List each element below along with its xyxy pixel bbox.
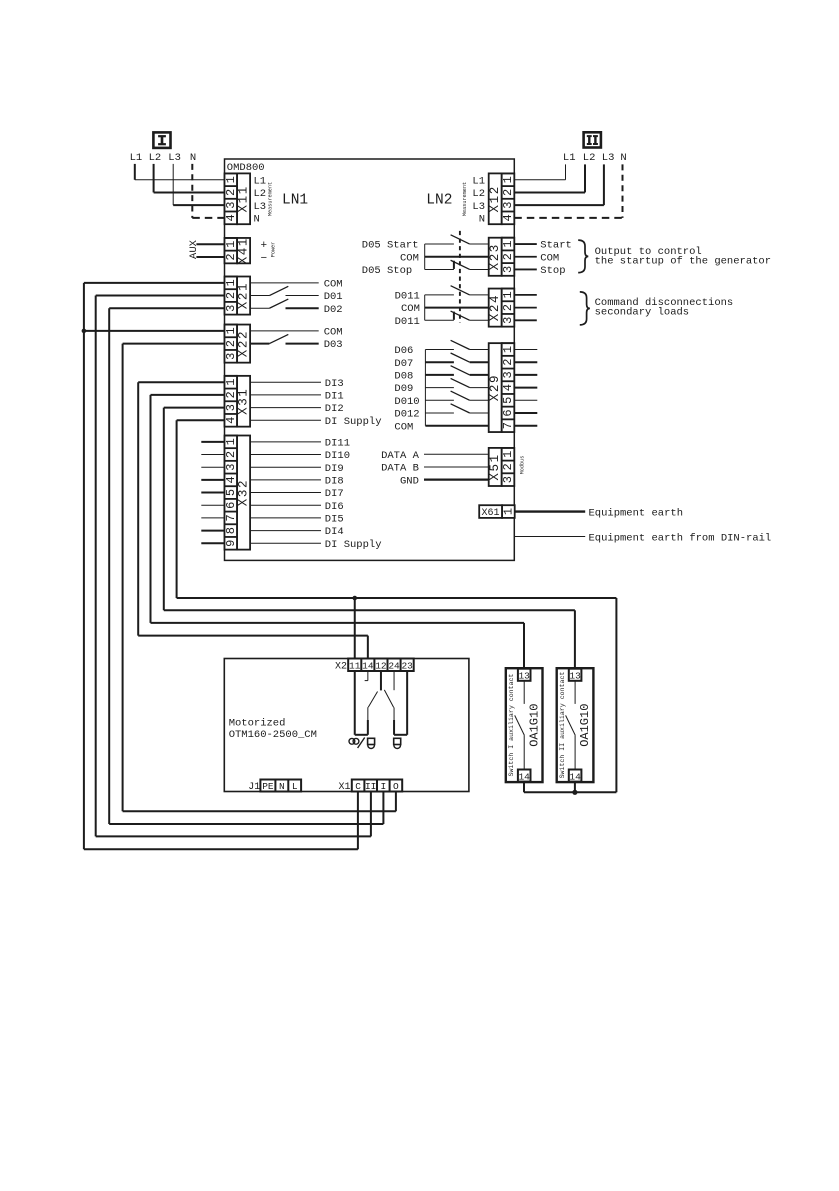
svg-text:1: 1 (501, 176, 515, 183)
wire X31.1 DI3 (250, 381, 321, 383)
wire X23.2 out (514, 256, 537, 258)
auxiliary switch box OA1G10 II (557, 668, 594, 782)
wire switch I 14 stub (523, 782, 525, 793)
svg-text:D06: D06 (394, 345, 413, 357)
svg-text:COM: COM (401, 303, 420, 315)
label OTM160-2500_CM (229, 729, 317, 741)
contact D05 Start X23.1 (425, 235, 489, 244)
label DI2 (325, 403, 344, 415)
svg-text:L1: L1 (472, 175, 485, 187)
label J1 (248, 782, 260, 793)
wire net DI3: X31.1 left + vertical + run to X2.14 (138, 382, 368, 658)
label L2 left (149, 152, 162, 164)
label Motorized (229, 717, 286, 729)
svg-text:3: 3 (224, 464, 238, 471)
wire DI Supply right vertical down (615, 598, 617, 792)
svg-text:3: 3 (501, 202, 515, 209)
svg-text:DI7: DI7 (325, 488, 344, 500)
svg-text:1: 1 (501, 508, 515, 515)
svg-text:AUX: AUX (188, 239, 200, 259)
wire X32.5 left stub (201, 492, 224, 494)
svg-text:4: 4 (224, 417, 238, 424)
label LN2 (426, 193, 452, 209)
svg-text:X21: X21 (237, 282, 251, 309)
svg-text:13: 13 (569, 671, 581, 682)
wire X32.8 right (250, 530, 321, 532)
label X2 (335, 662, 347, 673)
junction dot DI Supply / X2.11 (352, 596, 357, 601)
svg-text:Switch II auxiliary contact: Switch II auxiliary contact (559, 672, 566, 779)
svg-text:14: 14 (569, 771, 581, 782)
label + plus (261, 240, 268, 252)
wire equipment earth (514, 510, 585, 512)
svg-text:D01: D01 (324, 291, 343, 303)
label D011 lower (395, 316, 420, 328)
svg-text:24: 24 (388, 661, 400, 672)
contact D05 Stop X23.3 (NC) (425, 260, 489, 269)
wire X32.2 right (250, 454, 321, 456)
svg-text:D09: D09 (394, 383, 413, 395)
svg-text:1: 1 (224, 438, 238, 445)
svg-text:3: 3 (501, 317, 515, 324)
svg-text:DI11: DI11 (325, 437, 350, 449)
svg-text:D011: D011 (395, 291, 420, 303)
svg-text:Equipment earth: Equipment earth (589, 508, 684, 520)
wire X21.1 COM out (250, 282, 319, 284)
label AUX (188, 239, 200, 259)
svg-text:secondary loads: secondary loads (595, 307, 690, 319)
svg-text:X31: X31 (237, 388, 251, 415)
contact D01 X21.2 (250, 286, 319, 295)
svg-text:DI9: DI9 (325, 463, 344, 475)
svg-text:L2: L2 (254, 188, 267, 200)
svg-text:L1: L1 (130, 152, 143, 164)
wire X32.2 left stub (201, 454, 224, 456)
terminal block X23 (488, 238, 515, 276)
svg-text:L1: L1 (254, 175, 267, 187)
label Measurement right (462, 182, 468, 216)
wire L3 to X12.3 (514, 164, 604, 205)
wire net DI1: X31.2 left + vertical + run to switch I 13 (151, 395, 525, 668)
label Measurement left (268, 182, 274, 216)
contact D06 X29.1 (425, 340, 488, 349)
wire X32.6 left stub (201, 504, 224, 506)
label OMD800 (227, 162, 265, 174)
wire X29.5 out (514, 399, 537, 401)
junction dot net C (82, 329, 87, 334)
wire X32.4 left stub (201, 479, 224, 481)
label DI4 (325, 526, 344, 538)
svg-text:DI6: DI6 (325, 501, 344, 513)
svg-text:X22: X22 (237, 330, 251, 357)
svg-text:DATA A: DATA A (381, 450, 420, 462)
label DI9 (325, 463, 344, 475)
auxiliary switch box OA1G10 I (506, 668, 543, 782)
wire X24.3 out (514, 319, 537, 321)
svg-text:X1: X1 (338, 782, 350, 793)
label DO2 (324, 304, 343, 316)
svg-text:L1: L1 (563, 152, 576, 164)
label DI5 (325, 514, 344, 526)
svg-text:O: O (393, 781, 399, 792)
svg-text:D010: D010 (394, 396, 419, 408)
wire COM X24.2 (425, 307, 489, 309)
wire X2.14 fixed contact stub (365, 671, 368, 681)
label COM X22.1 (324, 327, 343, 339)
wire net D03: X22.2 left + vertical + bottom to X1.O (123, 344, 396, 812)
svg-text:DI3: DI3 (325, 378, 344, 390)
label DO1 (324, 291, 343, 303)
label DI11 (325, 437, 350, 449)
label D05 Start (362, 240, 419, 252)
svg-text:3: 3 (501, 371, 515, 378)
wire DATA B (424, 466, 489, 468)
svg-text:D08: D08 (394, 371, 413, 383)
wire net C: X21.1 left to vertical (84, 282, 225, 284)
device OMD800 outline (225, 159, 515, 560)
wire X32.4 right (250, 479, 321, 481)
wire L2 to X12.2 (514, 164, 585, 192)
wire DATA A (424, 453, 489, 455)
svg-text:Switch I auxiliary contact: Switch I auxiliary contact (508, 674, 515, 777)
svg-text:the startup of the generator: the startup of the generator (595, 255, 771, 267)
svg-text:3: 3 (501, 476, 515, 483)
svg-text:23: 23 (401, 661, 413, 672)
svg-text:L2: L2 (472, 188, 485, 200)
svg-text:7: 7 (501, 422, 515, 429)
svg-text:L3: L3 (254, 201, 267, 213)
svg-text:11: 11 (349, 661, 361, 672)
label DI7 (325, 488, 344, 500)
label COM X23 (400, 252, 419, 264)
terminal block X29 (488, 343, 515, 432)
contact D011 X24.1 (425, 286, 489, 295)
source marker II (584, 132, 601, 147)
svg-text:1: 1 (501, 451, 515, 458)
svg-text:Power: Power (271, 242, 277, 258)
wire left throw down (367, 707, 369, 735)
svg-text:1: 1 (501, 291, 515, 298)
svg-text:II: II (365, 781, 376, 792)
terminal cells J1 PE N L (260, 780, 301, 793)
label D08 (394, 371, 413, 383)
wire motor loop right bottom (394, 734, 407, 736)
svg-text:D011: D011 (395, 316, 420, 328)
wire X31.3 DI2 (250, 407, 321, 409)
svg-text:4: 4 (224, 214, 238, 221)
terminal block X21 (224, 277, 251, 315)
wire N dashed to X12.4 (514, 164, 622, 217)
wire X32.1 left stub (201, 441, 224, 443)
svg-text:DI5: DI5 (325, 514, 344, 526)
wire COM X23.2 (425, 256, 489, 258)
svg-text:D05 Stop: D05 Stop (362, 265, 412, 277)
svg-text:J1: J1 (248, 782, 260, 793)
label DATA B (381, 463, 419, 475)
svg-text:14: 14 (362, 661, 374, 672)
label DATA A (381, 450, 420, 462)
svg-text:13: 13 (518, 671, 530, 682)
motorized OTM160-2500_CM box (224, 659, 469, 792)
wire DI Supply drop to X2.11 (354, 598, 356, 659)
wire X32.7 right (250, 517, 321, 519)
wire X31.2 DI1 (250, 394, 321, 396)
svg-text:D012: D012 (394, 409, 419, 421)
svg-text:COM: COM (324, 327, 343, 339)
svg-text:1: 1 (224, 176, 238, 183)
label X1 (338, 782, 350, 793)
svg-text:OA1G10: OA1G10 (527, 704, 541, 747)
svg-text:L3: L3 (472, 201, 485, 213)
wire L1 to X11.1 (135, 164, 225, 180)
svg-text:X29: X29 (488, 374, 502, 401)
label Start (540, 240, 572, 252)
wire X29.2 out (514, 361, 537, 363)
wire N dashed to X11.4 (192, 164, 224, 218)
svg-text:Stop: Stop (540, 265, 565, 277)
wire X23.3 out (514, 268, 537, 270)
label LN1 (282, 193, 308, 209)
contact D09 X29.4 (425, 378, 488, 387)
svg-text:8: 8 (224, 527, 238, 534)
wire X23.1 out (514, 243, 537, 245)
svg-text:OTM160-2500_CM: OTM160-2500_CM (229, 729, 317, 741)
label L1 left (130, 152, 143, 164)
svg-text:OMD800: OMD800 (227, 162, 265, 174)
contact D08 X29.3 (425, 366, 488, 375)
terminal block X61 (479, 505, 515, 519)
indicator lamp icon I (368, 738, 375, 748)
svg-text:L2: L2 (149, 152, 162, 164)
label DI6 (325, 501, 344, 513)
motor cam icon (349, 738, 365, 749)
wire X22.1 to net C (84, 330, 225, 332)
terminal block X41 (224, 237, 251, 264)
svg-text:2: 2 (501, 253, 515, 260)
label COM X29 (394, 421, 413, 433)
svg-text:N: N (620, 152, 626, 164)
wire switch II 14 stub (574, 782, 576, 793)
contact D011 X24.3 (NC) (425, 311, 489, 320)
wire AUX + stub (196, 243, 224, 245)
label - minus (261, 253, 268, 265)
terminal block X51 (488, 448, 515, 486)
changeover blade left (368, 692, 377, 708)
terminal block X22 (224, 325, 251, 363)
label Output to control (595, 246, 702, 258)
label Command disconnections (595, 297, 734, 309)
label DI8 (325, 475, 344, 487)
wire L1 to X12.1 (514, 164, 565, 179)
svg-text:N: N (190, 152, 196, 164)
svg-text:L: L (292, 781, 298, 792)
label L1 right (563, 152, 576, 164)
svg-text:LN2: LN2 (426, 193, 452, 209)
contact D010 X29.5 (425, 391, 488, 400)
svg-text:COM: COM (394, 421, 413, 433)
wire net DI2: X31.3 left + vertical + run to switch II 13 (164, 408, 575, 669)
svg-text:GND: GND (400, 475, 419, 487)
svg-text:12: 12 (375, 661, 387, 672)
svg-text:Measurement: Measurement (268, 182, 274, 216)
svg-text:C: C (355, 781, 361, 792)
label L2 right (583, 152, 596, 164)
label D011 upper (395, 291, 420, 303)
contact D07 X29.2 (425, 353, 488, 362)
svg-text:Motorized: Motorized (229, 717, 286, 729)
svg-text:DI10: DI10 (325, 450, 350, 462)
wire motor loop left bottom (355, 734, 368, 736)
svg-text:1: 1 (224, 379, 238, 386)
label D012 (394, 409, 419, 421)
wire X32.3 left stub (201, 466, 224, 468)
terminal block X11 (224, 173, 251, 224)
wire X32.1 right (250, 441, 321, 443)
wire X2.24 fixed contact stub (393, 671, 395, 690)
X11 pin labels L1 L2 L3 N (254, 175, 267, 225)
wire X2.23 down (406, 671, 408, 735)
wire X24.1 out (514, 294, 537, 296)
svg-text:14: 14 (518, 771, 530, 782)
label N left (190, 152, 196, 164)
label Power (271, 242, 277, 258)
svg-text:D03: D03 (324, 339, 343, 351)
svg-text:1: 1 (501, 346, 515, 353)
svg-text:4: 4 (501, 384, 515, 391)
wire X32.7 left stub (201, 517, 224, 519)
wire X32.6 right (250, 504, 321, 506)
svg-text:X61: X61 (481, 508, 499, 519)
wire X32.9 right (250, 542, 321, 544)
label L3 left (168, 152, 181, 164)
label N right (620, 152, 626, 164)
svg-text:2: 2 (501, 304, 515, 311)
X23 left bus (424, 244, 426, 269)
svg-text:Modbus: Modbus (520, 456, 526, 475)
svg-text:X32: X32 (237, 479, 251, 506)
label DI3 (325, 378, 344, 390)
contact D02 X21.3 (250, 299, 319, 308)
label D010 (394, 396, 419, 408)
svg-text:2: 2 (501, 463, 515, 470)
svg-text:5: 5 (501, 397, 515, 404)
label Equipment earth from DIN-rail (589, 533, 772, 545)
wire equipment earth from DIN-rail (514, 536, 585, 538)
label Modbus (520, 456, 526, 475)
wire X29.1 out (514, 349, 537, 351)
wire net D02: X21.3 left + vertical + bottom to X1.I (109, 308, 383, 824)
svg-text:DI2: DI2 (325, 403, 344, 415)
svg-text:2: 2 (501, 189, 515, 196)
svg-text:DATA B: DATA B (381, 463, 419, 475)
wire GND (424, 479, 489, 481)
label the startup of the generator (595, 255, 771, 267)
svg-text:4: 4 (501, 214, 515, 221)
wire aux contacts 14 bus (524, 791, 616, 793)
svg-text:X51: X51 (488, 453, 502, 480)
changeover blade right (384, 690, 393, 708)
svg-text:7: 7 (224, 514, 238, 521)
svg-text:D02: D02 (324, 304, 343, 316)
label COM X21.1 (324, 278, 343, 290)
svg-text:X41: X41 (237, 237, 251, 264)
svg-text:OA1G10: OA1G10 (578, 704, 592, 747)
junction dot 14 bus (572, 790, 577, 795)
svg-text:X23: X23 (488, 243, 502, 270)
terminal block X31 (224, 376, 251, 427)
wire X2.11 down (354, 671, 356, 735)
wire X32.5 right (250, 492, 321, 494)
terminal cells X2 11 14 12 24 23 (348, 659, 414, 672)
label DI1 (325, 391, 344, 403)
indicator lamp icon II (394, 738, 401, 748)
wire net D01: X21.2 left + vertical + bottom to X1.II (96, 296, 371, 837)
source marker I (153, 132, 170, 148)
label secondary loads (595, 307, 690, 319)
label D05 Stop (362, 265, 412, 277)
svg-text:DI Supply: DI Supply (325, 416, 382, 428)
svg-text:−: − (261, 253, 268, 265)
label DI10 (325, 450, 350, 462)
wire net C bottom run to X1.C (84, 792, 358, 850)
svg-text:COM: COM (400, 252, 419, 264)
svg-text:N: N (254, 213, 260, 225)
wire L2 to X11.2 (154, 164, 225, 193)
label Equipment earth (589, 508, 684, 520)
X12 pin labels L1 L2 L3 N (472, 175, 485, 225)
wire AUX - stub (196, 256, 224, 258)
brace output to control (578, 240, 588, 273)
svg-text:DI4: DI4 (325, 526, 344, 538)
svg-text:N: N (279, 781, 285, 792)
label D06 (394, 345, 413, 357)
label DI Supply X31 (325, 416, 382, 428)
svg-text:DI1: DI1 (325, 391, 344, 403)
X24 left bus (424, 295, 426, 320)
wire L3 to X11.3 (173, 164, 224, 205)
svg-text:L3: L3 (602, 152, 615, 164)
svg-text:COM: COM (324, 278, 343, 290)
terminal cells X1 C II I O (352, 780, 402, 793)
svg-text:I: I (380, 781, 386, 792)
wire X32.3 right (250, 466, 321, 468)
svg-text:2: 2 (224, 451, 238, 458)
wire X29.3 out (514, 374, 537, 376)
svg-text:2: 2 (501, 359, 515, 366)
label DO3 (324, 339, 343, 351)
brace command disconnections (580, 292, 590, 325)
wire net DI Supply: X31.4 left + vertical + run right (177, 420, 617, 598)
svg-text:+: + (261, 240, 268, 252)
wire right throw down (393, 707, 395, 734)
terminal block X32 (224, 436, 251, 550)
wire X32.9 left stub (201, 542, 224, 544)
svg-text:9: 9 (224, 540, 238, 547)
label COM right (540, 252, 559, 264)
svg-text:L2: L2 (583, 152, 596, 164)
svg-text:Measurement: Measurement (462, 182, 468, 216)
svg-text:D05 Start: D05 Start (362, 240, 419, 252)
contact D012 X29.6 (425, 404, 488, 413)
label DI Supply (325, 539, 382, 551)
terminal block X12 (488, 173, 515, 224)
svg-text:DI Supply: DI Supply (325, 539, 382, 551)
wire X24.2 out (514, 307, 537, 309)
svg-text:LN1: LN1 (282, 193, 308, 209)
wire COM X29.7 (425, 425, 488, 427)
svg-text:D07: D07 (394, 358, 413, 370)
wire X29.4 out (514, 387, 537, 389)
